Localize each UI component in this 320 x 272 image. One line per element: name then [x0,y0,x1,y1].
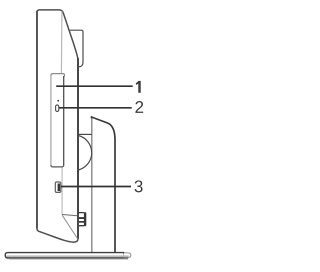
base bottom edge emphasis [7,257,128,259]
stand top bracket behind monitor [70,30,83,67]
stand column top curve and right edge [92,117,116,252]
back edge emphasis [77,58,79,239]
label 2 [135,101,143,113]
base inner seam [7,255,129,257]
hinge circle arc [78,136,91,171]
base under shadow [9,258,128,260]
side seam lower [61,168,63,215]
slot panel top edge [51,74,65,77]
leader line 2 [59,107,132,109]
slot panel bottom edge dark [51,165,64,167]
leader line 1 [56,85,133,87]
clip tooth upper [79,217,84,219]
side seam upper [60,11,63,73]
base body [5,253,124,258]
bottom junction line [62,215,77,216]
label 3 [135,180,143,192]
bottom crease diagonal [62,215,77,239]
base right cap (lighter far end) [123,253,131,258]
clip tooth lower [79,221,84,223]
clip right bar [84,212,86,226]
hinge cover top line [78,133,92,135]
slot panel right edge dark [63,76,65,166]
port (item 3) [55,182,61,192]
cable clip at bottom back [79,213,84,226]
label 1 [136,81,141,93]
leader line 3 [61,186,131,188]
stand column left edge [91,117,93,252]
slot panel (item 1): left edge light [50,75,52,165]
stand column peak vertex [91,116,93,118]
monitor side outline [37,10,78,242]
pill button (item 2) [56,105,59,112]
indicator dot [57,100,59,102]
front bezel edge emphasis [36,11,38,228]
